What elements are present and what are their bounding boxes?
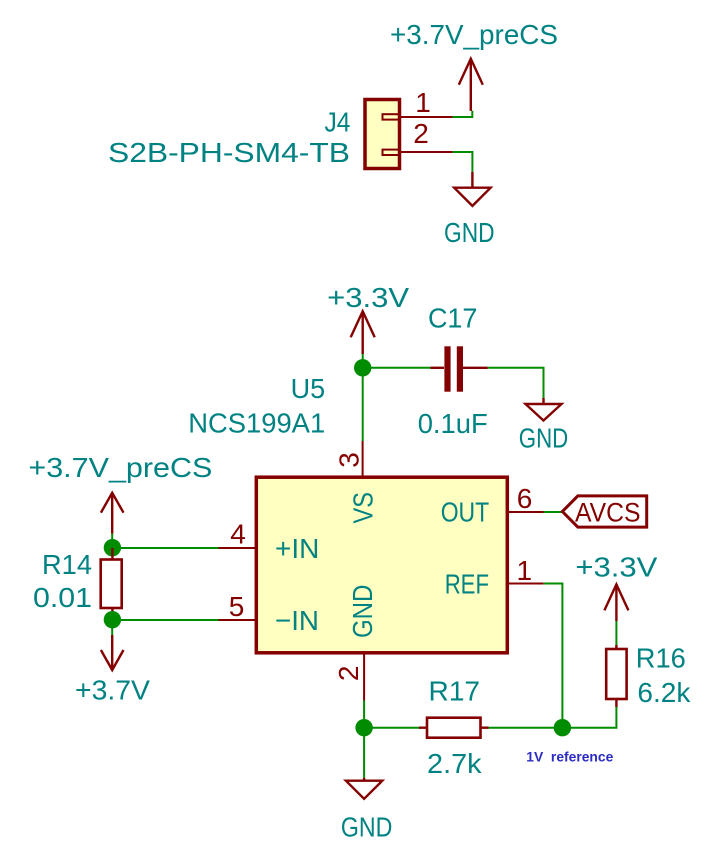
svg-text:3: 3 [333,452,364,468]
wire junction to pin 5 [112,619,218,621]
wire pin2 to ground [453,152,473,172]
svg-text:GND: GND [444,217,495,248]
pin 2 of J4 [400,151,453,153]
svg-text:2: 2 [333,666,364,682]
svg-text:6.2k: 6.2k [637,677,691,708]
svg-text:5: 5 [229,591,245,622]
junction node 1V reference [554,719,571,736]
ground symbol (C17) [526,398,562,421]
pin 1 (REF) [508,583,544,585]
power symbol +3.7V_preCS (left) [101,493,124,534]
ground symbol (top) [454,172,490,206]
svg-text:R16: R16 [636,643,686,674]
wire junction to ground [363,728,365,778]
junction node at VS [354,359,371,376]
op-amp U5 body NCS199A1 [256,477,507,653]
wire +3.3V to R16 [615,621,617,649]
pin 5 (-IN) [219,619,258,621]
svg-text:−IN: −IN [275,605,319,636]
svg-text:C17: C17 [428,303,478,334]
resistor R14 [101,548,122,620]
svg-text:REF: REF [445,569,489,600]
svg-text:VS: VS [348,492,379,524]
svg-text:1: 1 [517,555,533,586]
junction node at -IN [104,611,121,628]
svg-text:0.1uF: 0.1uF [418,408,488,439]
svg-text:0.01: 0.01 [33,582,92,613]
svg-text:R17: R17 [429,676,481,707]
resistor R16 [606,645,626,707]
svg-text:OUT: OUT [441,497,490,528]
wire C17 to ground [488,368,544,398]
svg-text:+3.7V_preCS: +3.7V_preCS [390,19,558,50]
ground symbol (bottom) [346,778,382,799]
svg-text:AVCS: AVCS [575,498,641,528]
svg-text:U5: U5 [291,373,326,404]
svg-text:6: 6 [517,483,533,514]
svg-text:4: 4 [230,519,246,550]
pin 4 (+IN) [219,547,258,549]
power symbol +3.7V_preCS (top) [459,59,483,111]
junction node at +IN [104,539,121,556]
connector J4 body [365,100,400,169]
svg-text:S2B-PH-SM4-TB: S2B-PH-SM4-TB [108,137,350,168]
wire junction to pin 4 [112,547,218,549]
power symbol +3.7V (down arrow) [101,635,124,670]
svg-text:+3.3V: +3.3V [327,282,409,313]
wire pin1 to +3.7V_preCS [453,111,473,117]
wire pin 6 to AVCS label [544,511,564,513]
capacitor C17 [431,346,488,391]
power symbol +3.3V (middle) [351,311,375,354]
power symbol +3.3V (right) [604,584,628,621]
svg-text:2: 2 [413,118,429,149]
svg-text:1: 1 [415,87,431,118]
svg-text:+3.7V: +3.7V [75,675,150,706]
svg-text:NCS199A1: NCS199A1 [188,408,325,439]
svg-text:J4: J4 [325,107,351,138]
svg-text:GND: GND [341,812,393,843]
pin 6 (OUT) [508,511,544,513]
svg-text:2.7k: 2.7k [427,748,483,779]
svg-text:1V reference: 1V reference [526,750,613,765]
wire +3.3V to junction to pin 3 [362,354,364,441]
svg-text:GND: GND [519,422,569,453]
svg-text:+3.3V: +3.3V [575,552,657,583]
wire power to junction [111,534,113,548]
wire pin 2 to junction [363,701,365,728]
svg-text:R14: R14 [42,549,92,580]
resistor R17 [419,718,489,738]
pin 1 of J4 [400,116,453,118]
svg-text:GND: GND [347,585,378,639]
wire junction to R17 [364,727,419,729]
pin 3 (VS) [362,441,364,477]
wire R16 to node [562,707,616,728]
wire junction to +3.7V power [111,620,113,636]
svg-text:+3.7V_preCS: +3.7V_preCS [28,452,212,483]
global label AVCS [562,496,646,528]
svg-text:+IN: +IN [275,533,319,564]
wire R17 to node [489,727,563,729]
wire junction to C17 [363,367,431,369]
pin 2 (GND) [363,654,365,701]
wire pin 1 (REF) down to node [544,584,563,728]
junction node GND [355,719,372,736]
